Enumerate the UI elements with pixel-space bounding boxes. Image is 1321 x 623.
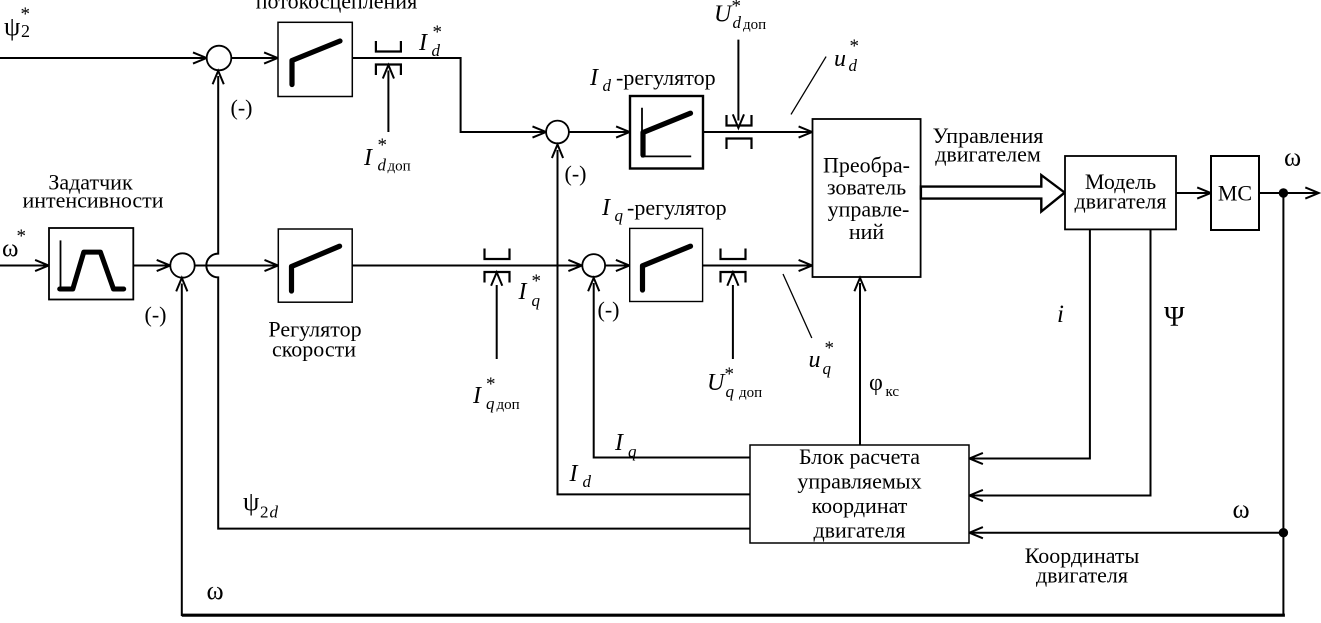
calc block text [797,444,921,543]
svg-text:I: I [614,430,624,456]
label Iq* [518,271,542,310]
svg-text:доп: доп [739,385,762,401]
wire Uq dop arrow [727,272,738,359]
svg-text:двигателя: двигателя [1074,189,1166,214]
wire Id* from flux regulator to S2 [352,58,546,138]
svg-text:Блок расчета: Блок расчета [799,444,920,469]
converter block [813,119,921,277]
label Iq dop [472,374,520,413]
wire Id regulator to converter [703,126,812,137]
svg-text:q: q [486,394,495,413]
svg-text:d: d [733,13,742,32]
svg-text:*: * [486,374,496,395]
wire Psi feedback [969,229,1150,501]
svg-text:d: d [270,503,279,522]
flux regulator curve [292,41,340,85]
label phi ks [869,370,899,400]
svg-text:u: u [834,46,846,72]
svg-text:I: I [518,279,528,305]
svg-text:*: * [532,271,542,292]
svg-text:I: I [472,383,482,409]
label upravleniya dvigatelem [933,123,1044,167]
wire MC output [1259,187,1319,198]
label psi2d [243,487,279,522]
label koordinaty dvigatelya [1025,543,1140,588]
svg-text:Ψ: Ψ [1164,302,1185,333]
wire right feedback vertical [1282,193,1284,616]
summing junction S1 [207,46,232,71]
svg-text:q: q [726,382,735,401]
summing junction S2 [546,121,569,144]
motor model text [1074,169,1166,214]
svg-text:ний: ний [849,219,885,244]
svg-text:ω: ω [1284,142,1301,171]
label Id dop [363,135,411,175]
svg-text:2: 2 [260,503,269,522]
wire omega to calc block [969,527,1283,538]
pointer ud* [791,57,826,115]
svg-text:d: d [603,76,612,95]
intensity setter axis [60,240,62,290]
label omega mid [1233,495,1250,524]
wire speed regulator to S4 [352,260,582,271]
converter text [823,153,910,245]
svg-text:-регулятор: -регулятор [616,65,716,90]
wire phi ks [854,278,865,445]
svg-text:U: U [714,2,733,28]
svg-text:u: u [809,347,821,373]
MC block [1211,156,1259,230]
flux regulator block [278,22,352,96]
label minus S2 [565,161,587,186]
svg-text:МС: МС [1218,181,1252,206]
Id regulator curve [643,113,691,155]
svg-text:*: * [378,135,388,156]
svg-text:U: U [707,370,726,396]
svg-text:I: I [363,145,373,171]
svg-text:управляемых: управляемых [797,469,921,494]
wire psi2d feedback [206,71,750,529]
label ud* [834,36,859,75]
label uq* [809,338,835,378]
svg-text:(-): (-) [598,297,620,322]
svg-text:доп: доп [388,159,411,175]
pointer uq* [783,274,812,338]
wire S1 to flux regulator [231,52,277,63]
Id regulator axes [642,108,691,157]
speed regulator block [278,229,352,302]
wire Iq dop arrow [491,272,502,359]
svg-text:доп: доп [743,17,766,33]
svg-text:I: I [569,461,579,487]
label minus S3 [145,302,167,327]
label zadatchik [22,170,163,213]
svg-text:I: I [601,195,611,221]
label minus S4 [598,297,620,322]
svg-text:(-): (-) [145,302,167,327]
svg-text:ψ: ψ [4,12,20,41]
speed regulator curve [292,246,340,291]
svg-text:i: i [1057,301,1064,328]
svg-text:d: d [583,472,592,491]
svg-text:I: I [589,65,599,91]
label Id-regulator [589,65,716,95]
wire S3 to speed regulator [195,260,278,271]
svg-text:доп: доп [497,397,520,413]
intensity setter trapezoid [60,252,124,289]
label Ud dop [714,0,766,33]
svg-text:потокосцепления: потокосцепления [256,0,417,14]
wire Id dop arrow [383,65,394,132]
wire S2 to Id regulator [569,126,630,137]
Iq regulator block [630,228,703,301]
limiter L2 [727,115,752,149]
svg-text:d: d [849,56,858,75]
wire intensity to S3 [133,260,170,271]
limiter L1 [376,41,401,75]
label omega* input [2,226,26,263]
limiter L3 [485,249,510,283]
svg-text:*: * [825,338,835,359]
svg-text:I: I [418,30,428,56]
label Iq-regulator [601,195,727,225]
junction dot output [1279,188,1288,197]
limiter L4 [721,249,746,283]
hollow arrow to motor model [921,175,1065,211]
svg-text:ω: ω [1233,495,1250,524]
wire psi2* input [0,52,207,63]
svg-text:(-): (-) [565,161,587,186]
wire Ud dop arrow [733,40,744,128]
wire omega* input [0,260,49,271]
Id regulator block [630,96,703,169]
svg-text:*: * [17,226,27,247]
svg-text:(-): (-) [231,95,253,120]
MC text [1218,181,1252,206]
svg-text:φ: φ [869,370,883,396]
wire omega feedback bottom [176,278,1285,616]
svg-text:двигателем: двигателем [935,142,1041,167]
svg-text:управле-: управле- [828,197,910,222]
svg-text:q: q [823,359,832,378]
junction dot omega mid [1279,528,1288,537]
svg-text:d: d [378,156,387,175]
wire Iq regulator to converter [703,260,813,271]
svg-text:d: d [432,41,441,60]
svg-text:скорости: скорости [272,337,356,362]
label psi2* input [4,4,30,41]
svg-text:ψ: ψ [243,487,259,516]
wire Iq feedback [588,278,750,458]
wire S4 to Iq regulator [605,260,629,271]
summing junction S4 [582,254,605,277]
svg-text:*: * [433,22,443,43]
label Id feedback [569,461,592,491]
label omega output [1284,142,1301,171]
svg-text:ω: ω [207,576,224,605]
svg-text:q: q [532,291,541,310]
label Psi [1164,302,1185,333]
label Id* [418,22,442,60]
motor model block [1065,156,1176,229]
label i [1057,301,1064,328]
label potokoscepleniya [256,0,417,14]
wire i feedback [969,229,1090,464]
svg-text:*: * [850,36,860,57]
svg-text:координат: координат [812,493,908,518]
summing junction S3 [170,253,194,277]
calc block [750,445,969,543]
wire Id feedback [552,145,750,495]
label Iq feedback [614,430,637,461]
svg-text:-регулятор: -регулятор [627,195,727,220]
svg-text:q: q [628,442,637,461]
label omega bottom left [207,576,224,605]
svg-text:двигателя: двигателя [813,518,905,543]
Iq regulator curve [643,246,691,290]
label regulator skorosti [268,317,361,362]
svg-text:*: * [21,4,31,25]
label Uq dop [707,364,762,401]
svg-text:q: q [615,206,624,225]
svg-text:кс: кс [886,384,900,400]
wire model to MC [1176,187,1211,198]
label minus S1 [231,95,253,120]
svg-text:интенсивности: интенсивности [22,188,163,213]
svg-text:двигателя: двигателя [1036,563,1128,588]
intensity setter block [49,228,133,300]
